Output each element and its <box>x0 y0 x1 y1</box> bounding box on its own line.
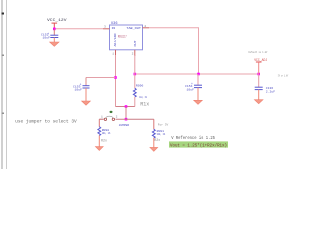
svg-text:VCC_12V: VCC_12V <box>47 19 67 23</box>
junction divider tap <box>125 105 128 108</box>
svg-text:R2x: R2x <box>101 138 107 142</box>
wire OUT column above resistor <box>134 55 136 88</box>
power flag VCC_12V <box>47 19 67 29</box>
svg-text:ADJ/GND: ADJ/GND <box>113 33 117 46</box>
capacitor C153 10uF (ADJ bypass) <box>73 83 90 92</box>
marker dot <box>110 111 113 113</box>
junction ADJ bypass tap <box>114 76 117 79</box>
svg-text:For 3V: For 3V <box>158 124 169 127</box>
ground under C153 <box>82 88 91 105</box>
junction OUT column / output rail <box>134 73 137 76</box>
wire jumper rail <box>99 118 154 120</box>
svg-text:JUMPER: JUMPER <box>119 123 130 127</box>
wire TAB_OUT to output rail <box>149 28 199 74</box>
wire divider tap down <box>125 107 127 120</box>
svg-text:1: 1 <box>101 116 103 119</box>
wire output rail <box>135 73 259 75</box>
capacitor C152 10uF <box>41 29 58 40</box>
svg-text:2.2uF: 2.2uF <box>266 90 275 94</box>
svg-text:10uF: 10uF <box>75 88 83 92</box>
capacitor C136 2.2uF (output ceramic) <box>255 74 276 94</box>
svg-text:R2x: R2x <box>154 138 160 142</box>
ground under C136 <box>254 90 263 104</box>
jumper J1 <box>101 116 129 128</box>
regulator U36 REG1117 <box>110 22 143 50</box>
svg-text:10uF: 10uF <box>187 88 195 92</box>
ground under R091 <box>150 138 158 151</box>
svg-text:294, 1%: 294, 1% <box>102 131 111 135</box>
resistor R098 294 1% (lower left) <box>98 119 110 142</box>
svg-text:OUT: OUT <box>133 40 137 46</box>
pin 2 (OUT) <box>132 50 135 56</box>
junction VCC_ADJ / output rail <box>257 73 260 76</box>
svg-text:TAB_OUT: TAB_OUT <box>126 26 141 30</box>
svg-text:4: 4 <box>144 25 146 28</box>
svg-text:R096: R096 <box>136 84 144 88</box>
resistor R096 110 1% (R1x) <box>133 84 149 108</box>
ground under C152 <box>50 38 59 47</box>
ground under C154 <box>194 88 203 105</box>
svg-text:340, 1%: 340, 1% <box>157 132 166 136</box>
svg-text:V Reference is 1.25: V Reference is 1.25 <box>171 136 215 141</box>
svg-text:REG1117: REG1117 <box>118 35 127 39</box>
note formula highlight <box>169 141 228 148</box>
svg-text:Default is 1.8V: Default is 1.8V <box>249 50 268 54</box>
capacitor C154 10uF (output bulk) <box>185 74 202 92</box>
pin 4 (TAB_OUT) <box>143 25 150 28</box>
pin 1 (ADJ/GND) <box>112 50 115 56</box>
power flag VCC_ADJ <box>254 59 267 74</box>
wire R1x bottom to ADJ column <box>116 106 135 108</box>
svg-text:R1x: R1x <box>140 101 149 107</box>
svg-text:Vout = 1.25*(1+R2x/R1x): Vout = 1.25*(1+R2x/R1x) <box>170 144 227 149</box>
svg-text:3V or 1.8V: 3V or 1.8V <box>278 75 289 78</box>
wire ADJ bypass branch <box>86 78 116 86</box>
svg-text:1: 1 <box>112 52 114 55</box>
wire ADJ column <box>115 55 117 107</box>
svg-text:2: 2 <box>132 52 134 55</box>
junction jumper rail <box>125 118 128 121</box>
junction TAB down-wire / output rail <box>197 73 200 76</box>
svg-text:10uF: 10uF <box>43 36 51 40</box>
svg-text:2: 2 <box>116 116 118 119</box>
svg-text:110, 1%: 110, 1% <box>139 95 147 99</box>
resistor R091 340 1% (lower right) <box>152 119 165 142</box>
junction at VCC_12V node <box>53 28 56 31</box>
wire input rail <box>54 28 103 30</box>
pin 3 (IN) <box>103 25 110 29</box>
svg-text:use jumper to select 3V: use jumper to select 3V <box>15 119 77 124</box>
svg-text:3: 3 <box>104 25 106 28</box>
svg-text:IN: IN <box>112 26 116 30</box>
ground under R098 <box>95 135 103 150</box>
